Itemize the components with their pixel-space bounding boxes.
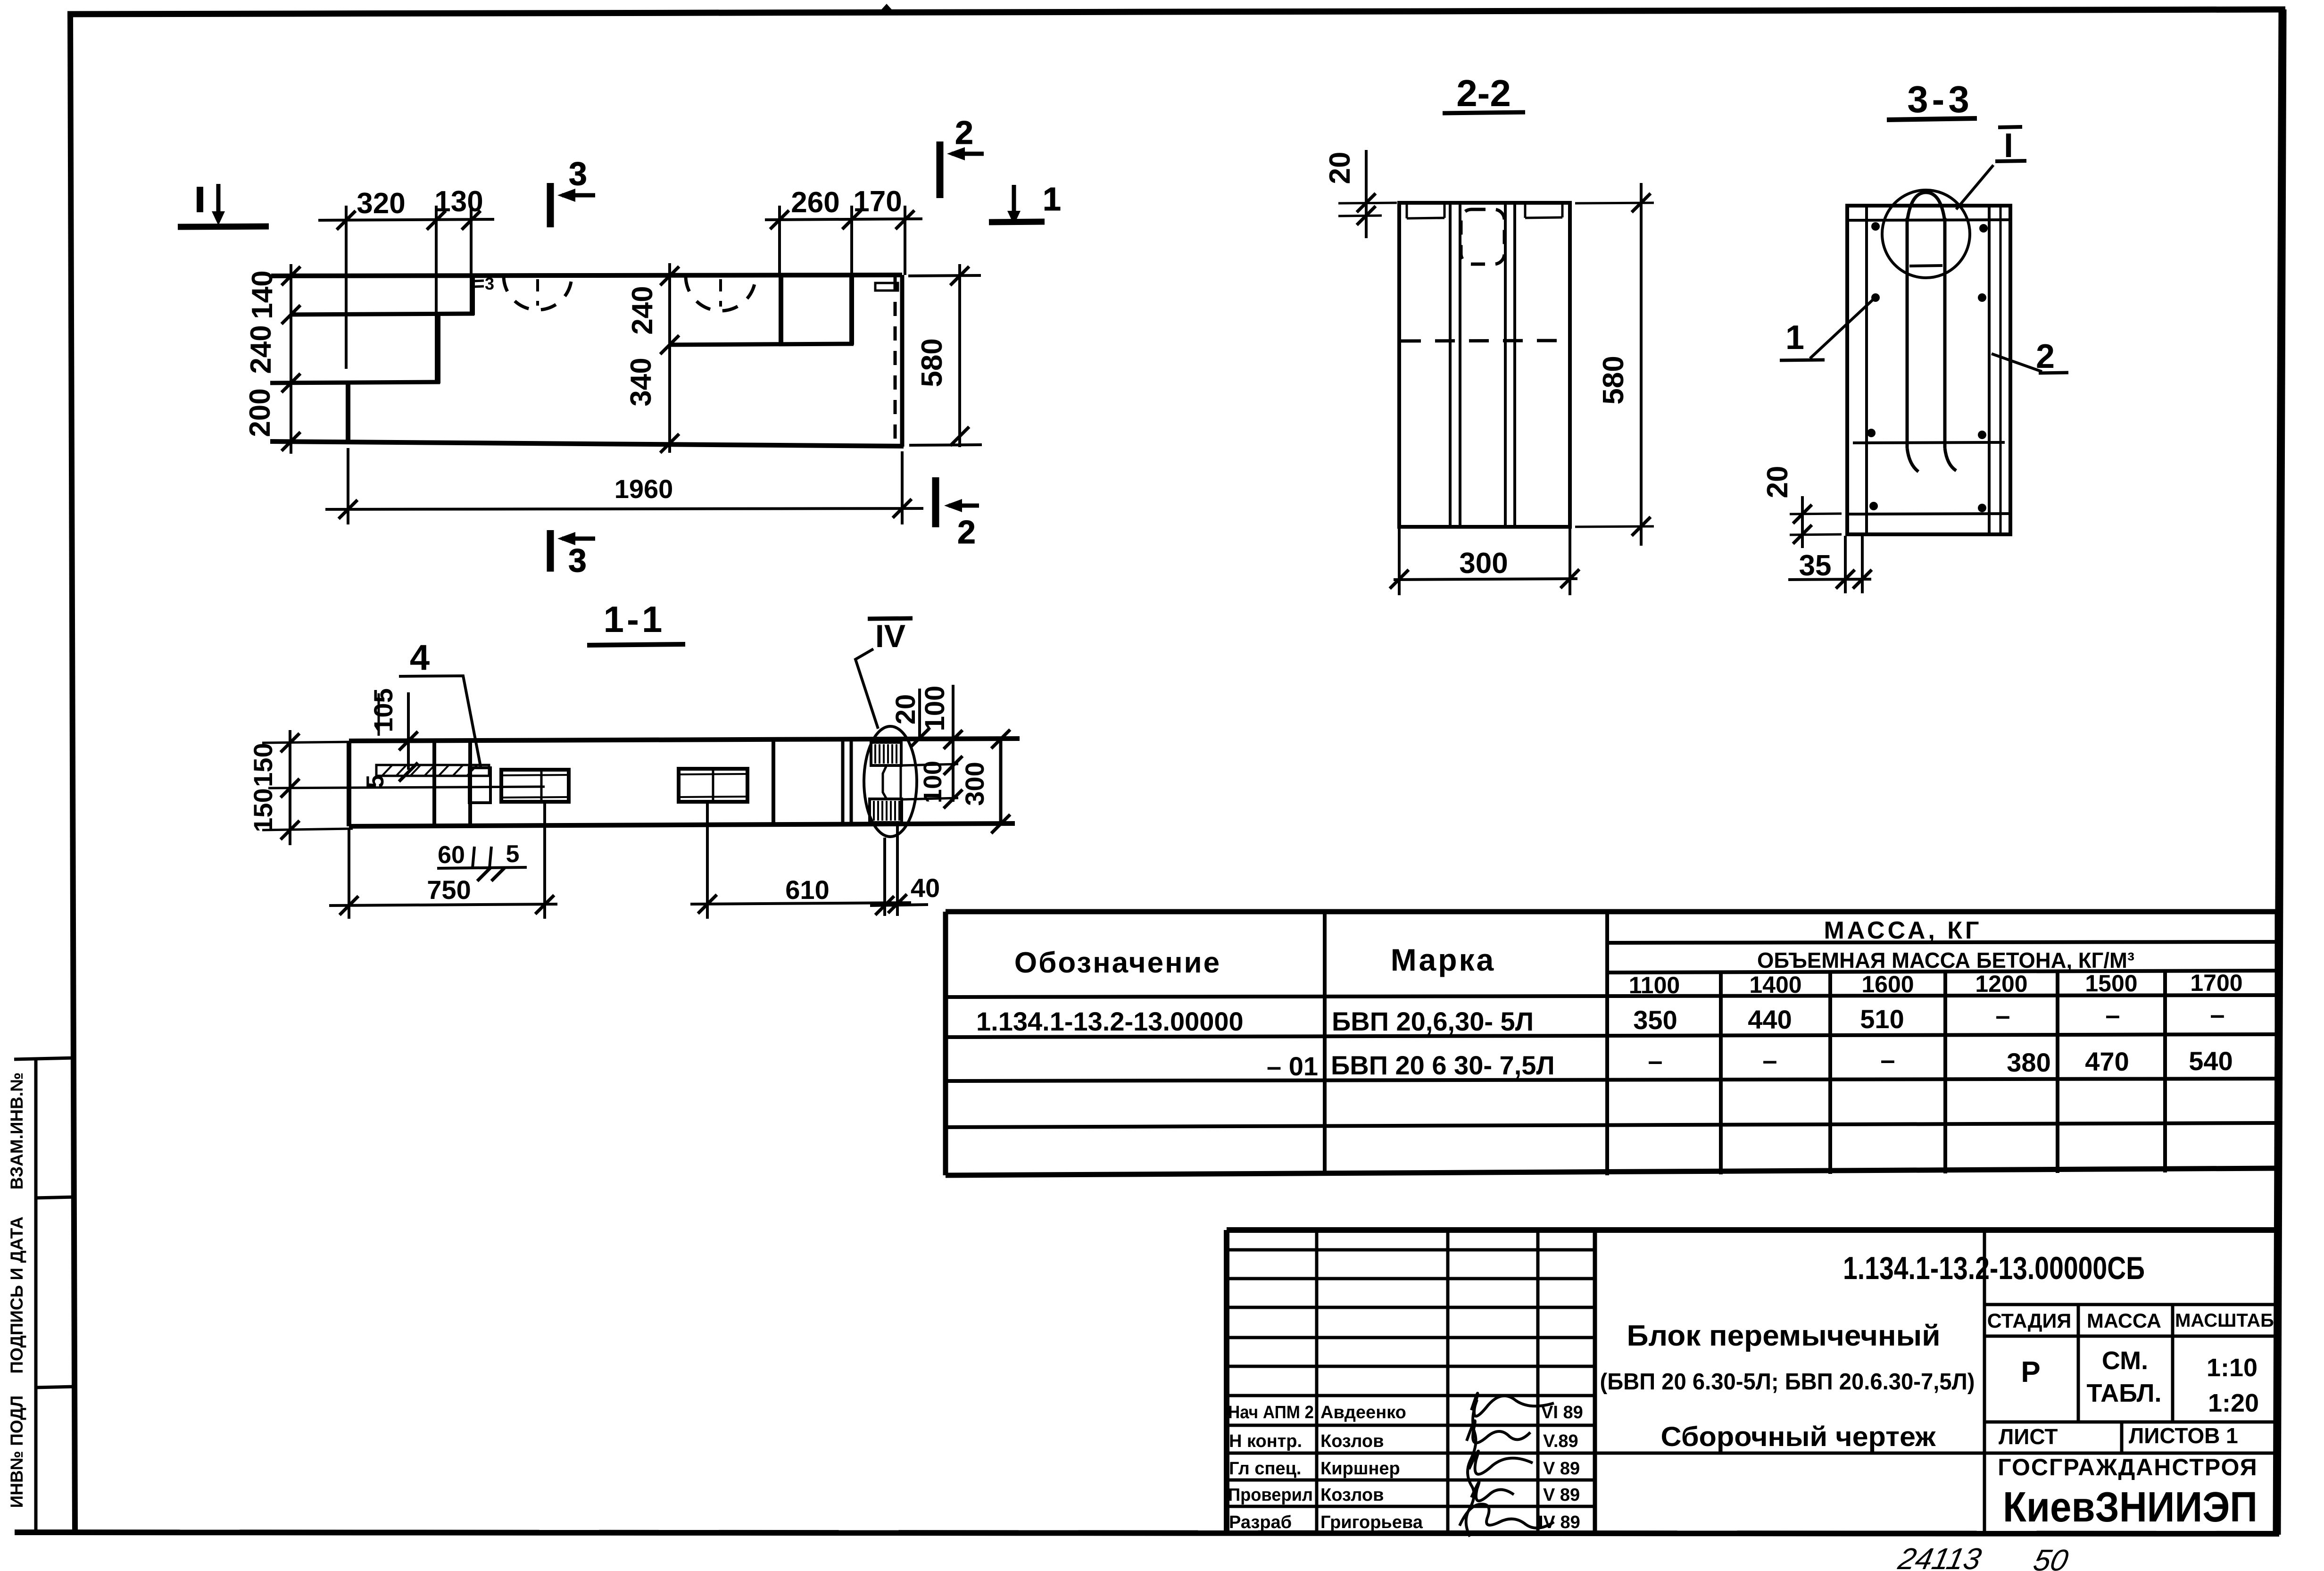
svg-text:140: 140 [246, 270, 279, 319]
svg-text:5: 5 [506, 840, 520, 868]
svg-text:40: 40 [911, 873, 940, 903]
svg-text:1: 1 [1043, 181, 1061, 217]
svg-text:105: 105 [368, 688, 398, 732]
svg-text:240: 240 [626, 286, 659, 334]
svg-text:Киршнер: Киршнер [1320, 1459, 1400, 1479]
svg-text:170: 170 [853, 185, 902, 218]
svg-text:КиевЗНИИЭП: КиевЗНИИЭП [2003, 1484, 2258, 1531]
svg-text:Авдеенко: Авдеенко [1320, 1403, 1406, 1422]
svg-text:100: 100 [919, 761, 947, 803]
svg-text:1100: 1100 [1629, 972, 1680, 998]
svg-text:20: 20 [1761, 466, 1794, 499]
svg-text:–: – [1995, 1000, 2010, 1030]
svg-text:–: – [1880, 1045, 1895, 1074]
svg-text:4: 4 [410, 638, 430, 678]
svg-text:Козлов: Козлов [1320, 1431, 1384, 1451]
svg-text:ИНВ№ ПОДЛ: ИНВ№ ПОДЛ [7, 1396, 26, 1508]
svg-text:300: 300 [1459, 547, 1508, 580]
svg-text:СТАДИЯ: СТАДИЯ [1987, 1310, 2072, 1332]
svg-text:1:20: 1:20 [2208, 1389, 2259, 1417]
svg-text:300: 300 [960, 762, 989, 806]
svg-text:260: 260 [791, 186, 839, 219]
svg-text:1700: 1700 [2190, 970, 2242, 996]
svg-text:Блок перемычечный: Блок перемычечный [1627, 1320, 1941, 1352]
svg-text:1.134.1-13.2-13.00000: 1.134.1-13.2-13.00000 [976, 1006, 1244, 1036]
svg-text:1500: 1500 [2085, 970, 2137, 997]
svg-text:МАССА, КГ: МАССА, КГ [1824, 917, 1982, 944]
svg-text:ЛИСТОВ 1: ЛИСТОВ 1 [2129, 1423, 2238, 1448]
svg-text:I: I [2004, 127, 2013, 165]
svg-text:V 89: V 89 [1543, 1459, 1580, 1479]
svg-text:1-1: 1-1 [604, 598, 665, 640]
svg-text:2: 2 [955, 114, 973, 151]
svg-text:1400: 1400 [1749, 972, 1801, 998]
svg-text:1200: 1200 [1975, 971, 2027, 997]
svg-text:20: 20 [890, 694, 921, 725]
svg-text:IV: IV [875, 618, 905, 654]
svg-text:1960: 1960 [614, 474, 673, 504]
svg-text:ЛИСТ: ЛИСТ [1999, 1424, 2058, 1449]
svg-text:3: 3 [569, 155, 587, 192]
svg-text:1600: 1600 [1861, 971, 1914, 997]
svg-text:130: 130 [434, 185, 483, 218]
svg-text:СМ.: СМ. [2102, 1347, 2148, 1375]
svg-text:–: – [2210, 999, 2224, 1029]
svg-text:Н контр.: Н контр. [1229, 1431, 1302, 1451]
svg-text:580: 580 [1597, 356, 1630, 404]
svg-text:5: 5 [362, 775, 389, 789]
svg-text:750: 750 [427, 875, 471, 905]
svg-text:– 01: – 01 [1267, 1051, 1318, 1081]
svg-text:35: 35 [1799, 549, 1832, 582]
svg-text:350: 350 [1633, 1005, 1677, 1035]
svg-text:МАССА: МАССА [2087, 1310, 2161, 1332]
svg-text:Проверил: Проверил [1228, 1485, 1313, 1505]
svg-text:150: 150 [248, 743, 278, 787]
svg-text:Козлов: Козлов [1320, 1485, 1384, 1505]
svg-text:–: – [1648, 1046, 1662, 1075]
svg-text:(БВП 20 6.30-5Л; БВП 20.6.30-7: (БВП 20 6.30-5Л; БВП 20.6.30-7,5Л) [1600, 1369, 1975, 1395]
svg-text:540: 540 [2189, 1046, 2233, 1076]
svg-text:V.89: V.89 [1543, 1431, 1578, 1451]
svg-text:24113: 24113 [1895, 1542, 1984, 1571]
svg-text:3: 3 [568, 542, 587, 579]
svg-text:–: – [1762, 1045, 1777, 1075]
svg-text:50: 50 [2031, 1543, 2072, 1571]
svg-text:2-2: 2-2 [1456, 72, 1511, 114]
svg-text:200: 200 [244, 388, 276, 437]
svg-text:Разраб: Разраб [1229, 1513, 1292, 1532]
svg-text:ПОДПИСЬ И ДАТА: ПОДПИСЬ И ДАТА [7, 1216, 26, 1373]
svg-text:2: 2 [2036, 338, 2055, 375]
svg-text:ТАБЛ.: ТАБЛ. [2087, 1379, 2162, 1407]
svg-text:580: 580 [916, 338, 948, 387]
svg-text:20: 20 [1324, 152, 1356, 184]
svg-text:БВП 20 6 30- 7,5Л: БВП 20 6 30- 7,5Л [1331, 1050, 1555, 1080]
svg-text:1: 1 [1785, 319, 1804, 357]
svg-text:1.134.1-13.2-13.00000СБ: 1.134.1-13.2-13.00000СБ [1843, 1250, 2145, 1286]
svg-text:100: 100 [920, 686, 950, 731]
svg-text:610: 610 [785, 875, 829, 905]
svg-text:Нач АПМ 2: Нач АПМ 2 [1228, 1403, 1314, 1422]
svg-text:Марка: Марка [1391, 942, 1496, 977]
svg-text:ОБЪЕМНАЯ МАССА БЕТОНА, КГ/М³: ОБЪЕМНАЯ МАССА БЕТОНА, КГ/М³ [1757, 948, 2134, 973]
svg-text:470: 470 [2085, 1047, 2129, 1076]
svg-text:V 89: V 89 [1543, 1485, 1580, 1505]
svg-text:БВП 20,6,30- 5Л: БВП 20,6,30- 5Л [1332, 1006, 1534, 1036]
svg-text:–: – [2105, 1000, 2120, 1030]
svg-text:ВЗАМ.ИНВ.№: ВЗАМ.ИНВ.№ [7, 1072, 26, 1190]
svg-text:Р: Р [2021, 1356, 2040, 1388]
svg-text:150: 150 [248, 788, 278, 832]
svg-text:3: 3 [485, 274, 494, 293]
svg-text:2: 2 [957, 514, 976, 550]
svg-text:Гл спец.: Гл спец. [1229, 1459, 1301, 1479]
svg-text:340: 340 [625, 357, 657, 406]
svg-text:240: 240 [245, 325, 277, 374]
svg-text:3-3: 3-3 [1907, 78, 1973, 120]
svg-text:1:10: 1:10 [2207, 1354, 2258, 1382]
svg-text:Обозначение: Обозначение [1014, 947, 1221, 979]
svg-text:ГОСГРАЖДАНСТРОЯ: ГОСГРАЖДАНСТРОЯ [1998, 1454, 2258, 1480]
svg-text:510: 510 [1860, 1004, 1904, 1034]
svg-text:320: 320 [357, 187, 405, 220]
svg-text:380: 380 [2007, 1047, 2050, 1077]
svg-text:Сборочный чертеж: Сборочный чертеж [1661, 1421, 1936, 1452]
svg-text:60: 60 [438, 841, 465, 869]
svg-text:МАСШТАБ: МАСШТАБ [2175, 1310, 2274, 1331]
svg-text:440: 440 [1748, 1005, 1792, 1034]
svg-text:Григорьева: Григорьева [1320, 1513, 1423, 1532]
svg-text:IV 89: IV 89 [1538, 1513, 1580, 1532]
